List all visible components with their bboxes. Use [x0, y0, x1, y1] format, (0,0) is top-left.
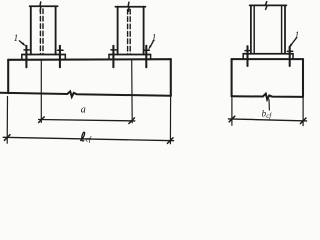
dimension bcf extension left [231, 98, 233, 125]
column K1 left flange [30, 6, 32, 54]
anchor bolt B1b nut [58, 49, 63, 51]
foundation F1 top edge [8, 58, 171, 61]
dimension lcf extension left [6, 97, 8, 144]
dimension a tick right [129, 118, 135, 124]
anchor bolt B3b [289, 47, 291, 66]
leader line to bolt, mark 1 (column K3) [291, 38, 297, 45]
anchor bolt B2b nut [144, 49, 149, 51]
column K2 web hidden lines [127, 9, 129, 54]
column K1 centerline [40, 60, 42, 122]
dimension bcf tick right [300, 118, 306, 124]
foundation F2 right edge [302, 59, 304, 97]
foundation F2 top edge [232, 58, 303, 60]
svg-text:a: a [81, 105, 86, 116]
dimension bcf tick left [229, 116, 235, 122]
column K3 flange inner right [281, 5, 283, 53]
dimension lcf extension right [169, 97, 171, 144]
column K2 right flange [143, 7, 145, 55]
dimension lcf tick left [4, 135, 10, 141]
dimension a line [39, 120, 135, 121]
column K2 top cut line [115, 6, 145, 8]
foundation F2 left edge [231, 59, 233, 96]
anchor bolt B1b [59, 46, 61, 68]
column K3 top cut line [250, 4, 287, 6]
dimension a tick left [39, 117, 45, 123]
label lcf (dimension) [80, 132, 84, 141]
column K3 top break mark [266, 2, 267, 10]
svg-text:1: 1 [295, 30, 300, 40]
column K1 web hidden lines [39, 9, 41, 54]
anchor bolt B2b [145, 46, 147, 68]
base plate P2 [109, 54, 151, 56]
anchor bolt B2a nut [111, 49, 116, 51]
foundation F2 bottom edge with break mark [232, 94, 303, 100]
leader line to bolt, mark 1 (column K1) [19, 41, 23, 45]
dimension bcf extension right [302, 98, 304, 126]
anchor bolt B3a [246, 46, 248, 66]
anchor bolt B1a [25, 46, 27, 68]
svg-text:1: 1 [152, 33, 157, 43]
dimension lcf line [3, 137, 173, 140]
base plate P1 [22, 54, 66, 56]
dimension lcf tick right [167, 138, 173, 144]
leader line to bolt, mark 1 (column K2) [150, 40, 154, 47]
column K2 centerline [131, 60, 134, 123]
column K1 top break tick [39, 2, 42, 11]
column K3 flange outer right [284, 5, 286, 53]
column K3 flange inner left [253, 5, 255, 53]
foundation F1 right edge [170, 59, 172, 96]
column K3 centerline stub [268, 100, 270, 110]
dimension bcf line [228, 119, 306, 121]
column K3 flange outer left [250, 5, 252, 53]
column K1 top cut line [30, 5, 58, 7]
anchor bolt B1a nut [24, 49, 29, 51]
column K2 left flange [117, 7, 119, 55]
svg-text:cf: cf [86, 134, 92, 143]
foundation F1 left edge [7, 60, 9, 93]
anchor bolt B3a nut [245, 50, 250, 52]
base plate P3 [243, 53, 293, 55]
column K2 top break tick [127, 2, 130, 11]
svg-text:1: 1 [14, 33, 19, 43]
anchor bolt B2a [112, 46, 114, 68]
column K1 right flange [55, 6, 57, 54]
anchor bolt B3b nut [287, 50, 292, 52]
foundation F1 bottom edge with break mark [0, 91, 171, 96]
